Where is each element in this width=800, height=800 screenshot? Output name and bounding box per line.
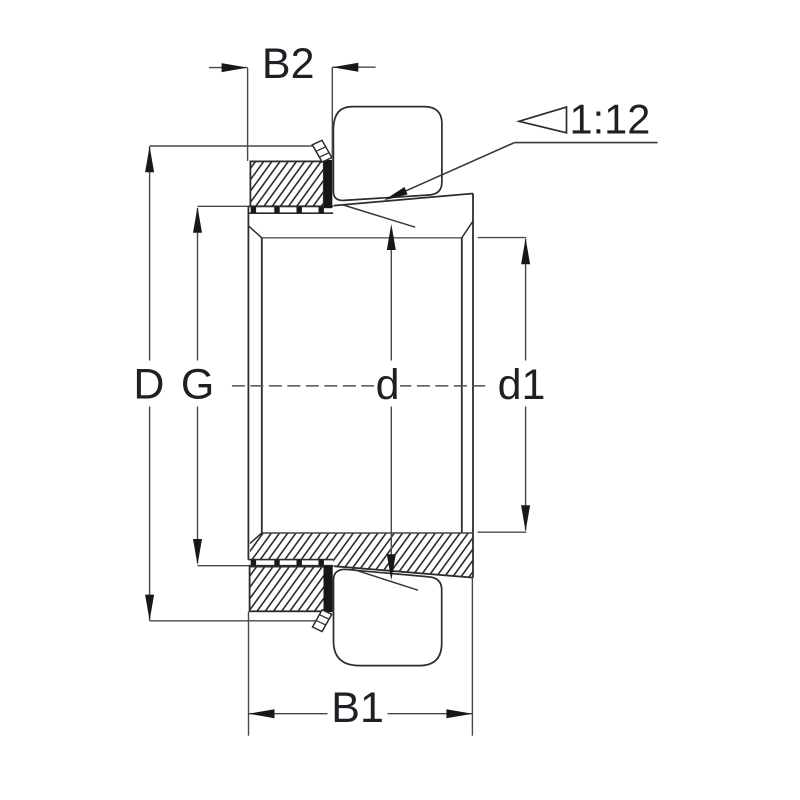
washer tab bottom	[313, 610, 332, 632]
bore top line	[262, 237, 462, 239]
thread tick marks bottom	[251, 560, 324, 566]
dimension d1 extension line top	[478, 237, 527, 239]
bore left edge	[261, 238, 263, 533]
dimension B2 right arrow line	[332, 66, 375, 68]
svg-text:D: D	[133, 360, 164, 408]
dimension B1 line	[249, 713, 328, 715]
taper reference line bottom	[352, 569, 418, 590]
sleeve left end face	[247, 206, 249, 559]
svg-text:G: G	[181, 360, 214, 408]
taper surface top (1:12)	[334, 194, 473, 206]
bore bottom / flange top line	[262, 532, 473, 534]
lock washer bottom (solid black)	[324, 566, 333, 613]
svg-text:B2: B2	[262, 40, 315, 88]
svg-text:d1: d1	[498, 361, 546, 409]
dimension D extension line top	[150, 145, 313, 147]
lock nut top section (hatched)	[249, 54, 325, 317]
thread crest line bottom	[248, 559, 333, 561]
sleeve right end face	[472, 194, 474, 578]
dimension d1 extension line bottom	[478, 531, 527, 533]
dimension B2 extension line left	[247, 68, 249, 161]
dimension D extension line bottom	[150, 620, 316, 622]
lock washer top (solid black)	[324, 160, 332, 208]
taper annotation underline	[515, 142, 658, 144]
chamfer top-right	[462, 221, 473, 238]
dimension d line	[390, 250, 392, 361]
dimension G extension line bottom	[198, 565, 249, 567]
label d background	[374, 364, 400, 402]
bearing roller top (rounded square)	[333, 107, 442, 201]
bore right edge	[461, 238, 463, 533]
bearing roller bottom (rounded square)	[334, 569, 442, 665]
taper surface bottom (1:12)	[334, 566, 473, 577]
dimension G extension line top	[198, 205, 249, 207]
dimension B1 extension line left	[248, 611, 250, 735]
taper leader line	[388, 143, 515, 199]
thread root line bottom	[248, 565, 333, 567]
thread tick marks top	[251, 207, 324, 213]
dimension B2 left arrow line	[209, 67, 248, 69]
thread root line top	[248, 212, 333, 214]
flange hatched section (bottom sleeve cross-section)	[248, 219, 475, 800]
dimension B2 extension line right	[331, 67, 333, 159]
svg-text:1:12: 1:12	[570, 95, 651, 142]
dimension D line	[149, 146, 151, 360]
taper symbol triangle	[519, 107, 567, 133]
washer tab top	[312, 140, 332, 162]
dimension G line	[197, 208, 199, 361]
centerline (dashed)	[232, 385, 485, 387]
taper reference line top	[342, 205, 415, 228]
dimension d1 line	[525, 239, 527, 361]
thread crest line top	[248, 205, 333, 207]
taper leader arrowhead	[384, 187, 408, 200]
svg-text:B1: B1	[331, 684, 384, 732]
chamfer bottom-left	[250, 533, 262, 543]
chamfer top-left	[249, 226, 262, 238]
dimension B1 extension line right	[471, 579, 473, 736]
lock nut bottom section (hatched)	[248, 460, 326, 726]
svg-text:d: d	[376, 361, 400, 409]
